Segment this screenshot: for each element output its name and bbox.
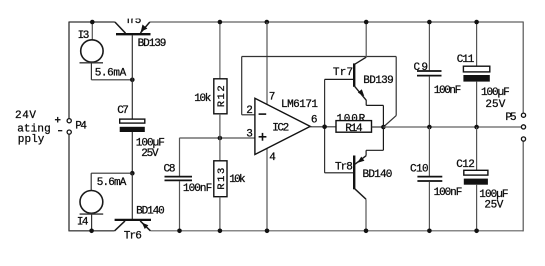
svg-text:P4: P4 (75, 121, 87, 133)
minus input mark (259, 113, 267, 115)
svg-text:24V: 24V (15, 110, 36, 122)
wire Tr8 collector (365, 199, 367, 231)
wire C11 bottom (476, 82, 478, 127)
wire feedback top (242, 56, 397, 58)
wire Tr5 base to C7 (131, 35, 133, 119)
current source I3 (80, 40, 104, 63)
svg-text:100nF: 100nF (434, 187, 463, 199)
capacitor C9 (417, 71, 442, 76)
svg-text:10k: 10k (194, 93, 212, 105)
wire C12 top (476, 127, 478, 170)
wire I4 top L (91, 173, 132, 190)
wire feedback right vertical (395, 57, 397, 116)
plus mark (P4) (55, 117, 61, 123)
transistor Tr6 (115, 220, 151, 231)
node pin4 bottom rail (265, 229, 270, 234)
svg-text:C11: C11 (457, 54, 475, 66)
resistor R12 (214, 79, 228, 114)
connector P4 pin - (67, 130, 71, 134)
svg-text:BD139: BD139 (363, 75, 393, 87)
svg-text:R13: R13 (216, 168, 228, 190)
svg-text:25V: 25V (484, 200, 503, 212)
plus input mark (259, 133, 267, 141)
wire Tr8 base lead (325, 172, 354, 174)
svg-text:C10: C10 (410, 163, 429, 175)
wire opamp pin4 (266, 148, 268, 230)
svg-text:P5: P5 (505, 112, 516, 124)
svg-text:R14: R14 (345, 123, 363, 135)
svg-text:5.6mA: 5.6mA (95, 67, 127, 79)
svg-text:LM6171: LM6171 (281, 99, 318, 111)
wire C10 bottom (428, 182, 430, 231)
capacitor C11 (463, 66, 489, 81)
wire mid output line (383, 126, 521, 128)
wire C10 top (428, 127, 430, 176)
wire opamp output (310, 126, 337, 128)
node C9 mid (427, 125, 432, 130)
wire C7 bottom (131, 132, 133, 173)
svg-text:C7: C7 (117, 105, 129, 117)
svg-text:5.6mA: 5.6mA (97, 177, 127, 189)
resistor R13 (214, 161, 228, 197)
wire Tr7 emitter jog (366, 100, 383, 127)
wire Tr6 base (131, 173, 133, 219)
wire R14 right (372, 126, 384, 128)
node I3/Tr5 base junction (130, 78, 135, 83)
node C11 mid (474, 125, 479, 130)
wire Tr8 emitter jog (366, 127, 383, 156)
svg-text:3: 3 (246, 129, 253, 141)
node Tr8 collector rail (364, 229, 369, 234)
node Tr7 collector rail (364, 20, 369, 25)
node C8 bottom rail (177, 229, 182, 234)
minus mark (P4) (58, 130, 62, 132)
wire bottom rail left (69, 230, 115, 232)
svg-text:7: 7 (269, 91, 276, 103)
node pin7 top rail (265, 20, 270, 25)
node R14 right junction (381, 125, 386, 130)
connector P5 pin top (521, 113, 525, 117)
svg-text:25V: 25V (485, 99, 505, 111)
svg-text:IC2: IC2 (272, 122, 289, 134)
svg-text:10k: 10k (229, 174, 246, 186)
node I4 bottom rail (89, 229, 94, 234)
svg-text:4: 4 (269, 152, 276, 164)
svg-text:100nF: 100nF (183, 183, 212, 195)
wire I3 bottom L (91, 64, 132, 80)
wire right rail lower (522, 141, 524, 231)
node R12/R13 divider junction (218, 136, 223, 141)
node C12 bottom rail (474, 229, 479, 234)
wire C11 top (476, 22, 478, 66)
wire C9 bottom (428, 76, 430, 127)
transistor Tr5 (115, 22, 151, 34)
svg-text:C8: C8 (164, 163, 176, 175)
wire driver bases vertical (324, 79, 326, 172)
wire R12 bottom (219, 114, 221, 138)
node R13 bottom rail (218, 229, 223, 234)
resistor R14 (336, 121, 372, 135)
wire I4 bottom (91, 215, 93, 231)
svg-text:2: 2 (246, 105, 253, 117)
node I3 top rail (90, 20, 95, 25)
wire opamp pin7 (266, 22, 268, 104)
svg-text:BD140: BD140 (136, 205, 165, 217)
connector P5 pin mid (521, 125, 525, 129)
transistor Tr5 label (half-clipped) (122, 11, 148, 27)
wire C9 top (428, 22, 430, 70)
op-amp IC2 (255, 98, 310, 154)
wire C12 bottom (476, 185, 478, 231)
wire R13 bottom (219, 197, 221, 231)
wire Tr7 base lead (325, 78, 354, 80)
wire R13 top (219, 138, 221, 161)
svg-text:100nF: 100nF (434, 85, 461, 97)
wire C8 top (179, 138, 181, 176)
current source I4 (80, 191, 104, 215)
svg-text:C9: C9 (414, 62, 429, 74)
transistor Tr8 (354, 156, 366, 200)
capacitor C7 (120, 119, 145, 132)
svg-text:Tr6: Tr6 (124, 230, 142, 242)
node output junction (322, 125, 327, 130)
wire pin2 (242, 114, 255, 116)
transistor Tr7 (354, 57, 366, 100)
node C7/I4 junction (130, 171, 135, 176)
wire top rail left (69, 21, 115, 23)
svg-text:BD139: BD139 (138, 38, 167, 50)
capacitor C8 (165, 177, 193, 181)
svg-text:25V: 25V (141, 148, 159, 160)
wire I3 top (91, 22, 93, 40)
node C9 top rail (427, 20, 432, 25)
connector P5 pin bottom (521, 137, 525, 141)
svg-text:R12: R12 (216, 85, 228, 107)
svg-text:BD140: BD140 (363, 169, 393, 181)
svg-text:Tr8: Tr8 (335, 161, 353, 173)
svg-text:Tr7: Tr7 (333, 67, 353, 79)
svg-text:C12: C12 (456, 159, 475, 171)
svg-text:I4: I4 (77, 216, 89, 228)
wire left rail lower (68, 134, 70, 231)
node R12 top rail (218, 20, 223, 25)
connector P4 pin + (67, 119, 71, 123)
wire right rail upper (522, 22, 524, 114)
svg-text:6: 6 (311, 115, 318, 127)
wire bottom rail right (150, 230, 523, 232)
wire left rail upper (68, 22, 70, 119)
wire R12 top (219, 22, 221, 79)
wire Tr7 collector (365, 22, 367, 57)
svg-text:100µF: 100µF (481, 87, 510, 99)
wire pin3 net (180, 137, 255, 139)
svg-text:pply: pply (18, 134, 45, 146)
svg-text:I3: I3 (78, 30, 90, 42)
node C10 bottom rail (427, 229, 432, 234)
node C11 top rail (474, 20, 479, 25)
wire feedback diagonal (383, 116, 396, 127)
wire C8 bottom (179, 181, 181, 231)
wire feedback left vertical (241, 57, 243, 115)
wire top rail right (150, 21, 523, 23)
capacitor C10 (417, 177, 442, 181)
capacitor C12 (464, 170, 488, 184)
